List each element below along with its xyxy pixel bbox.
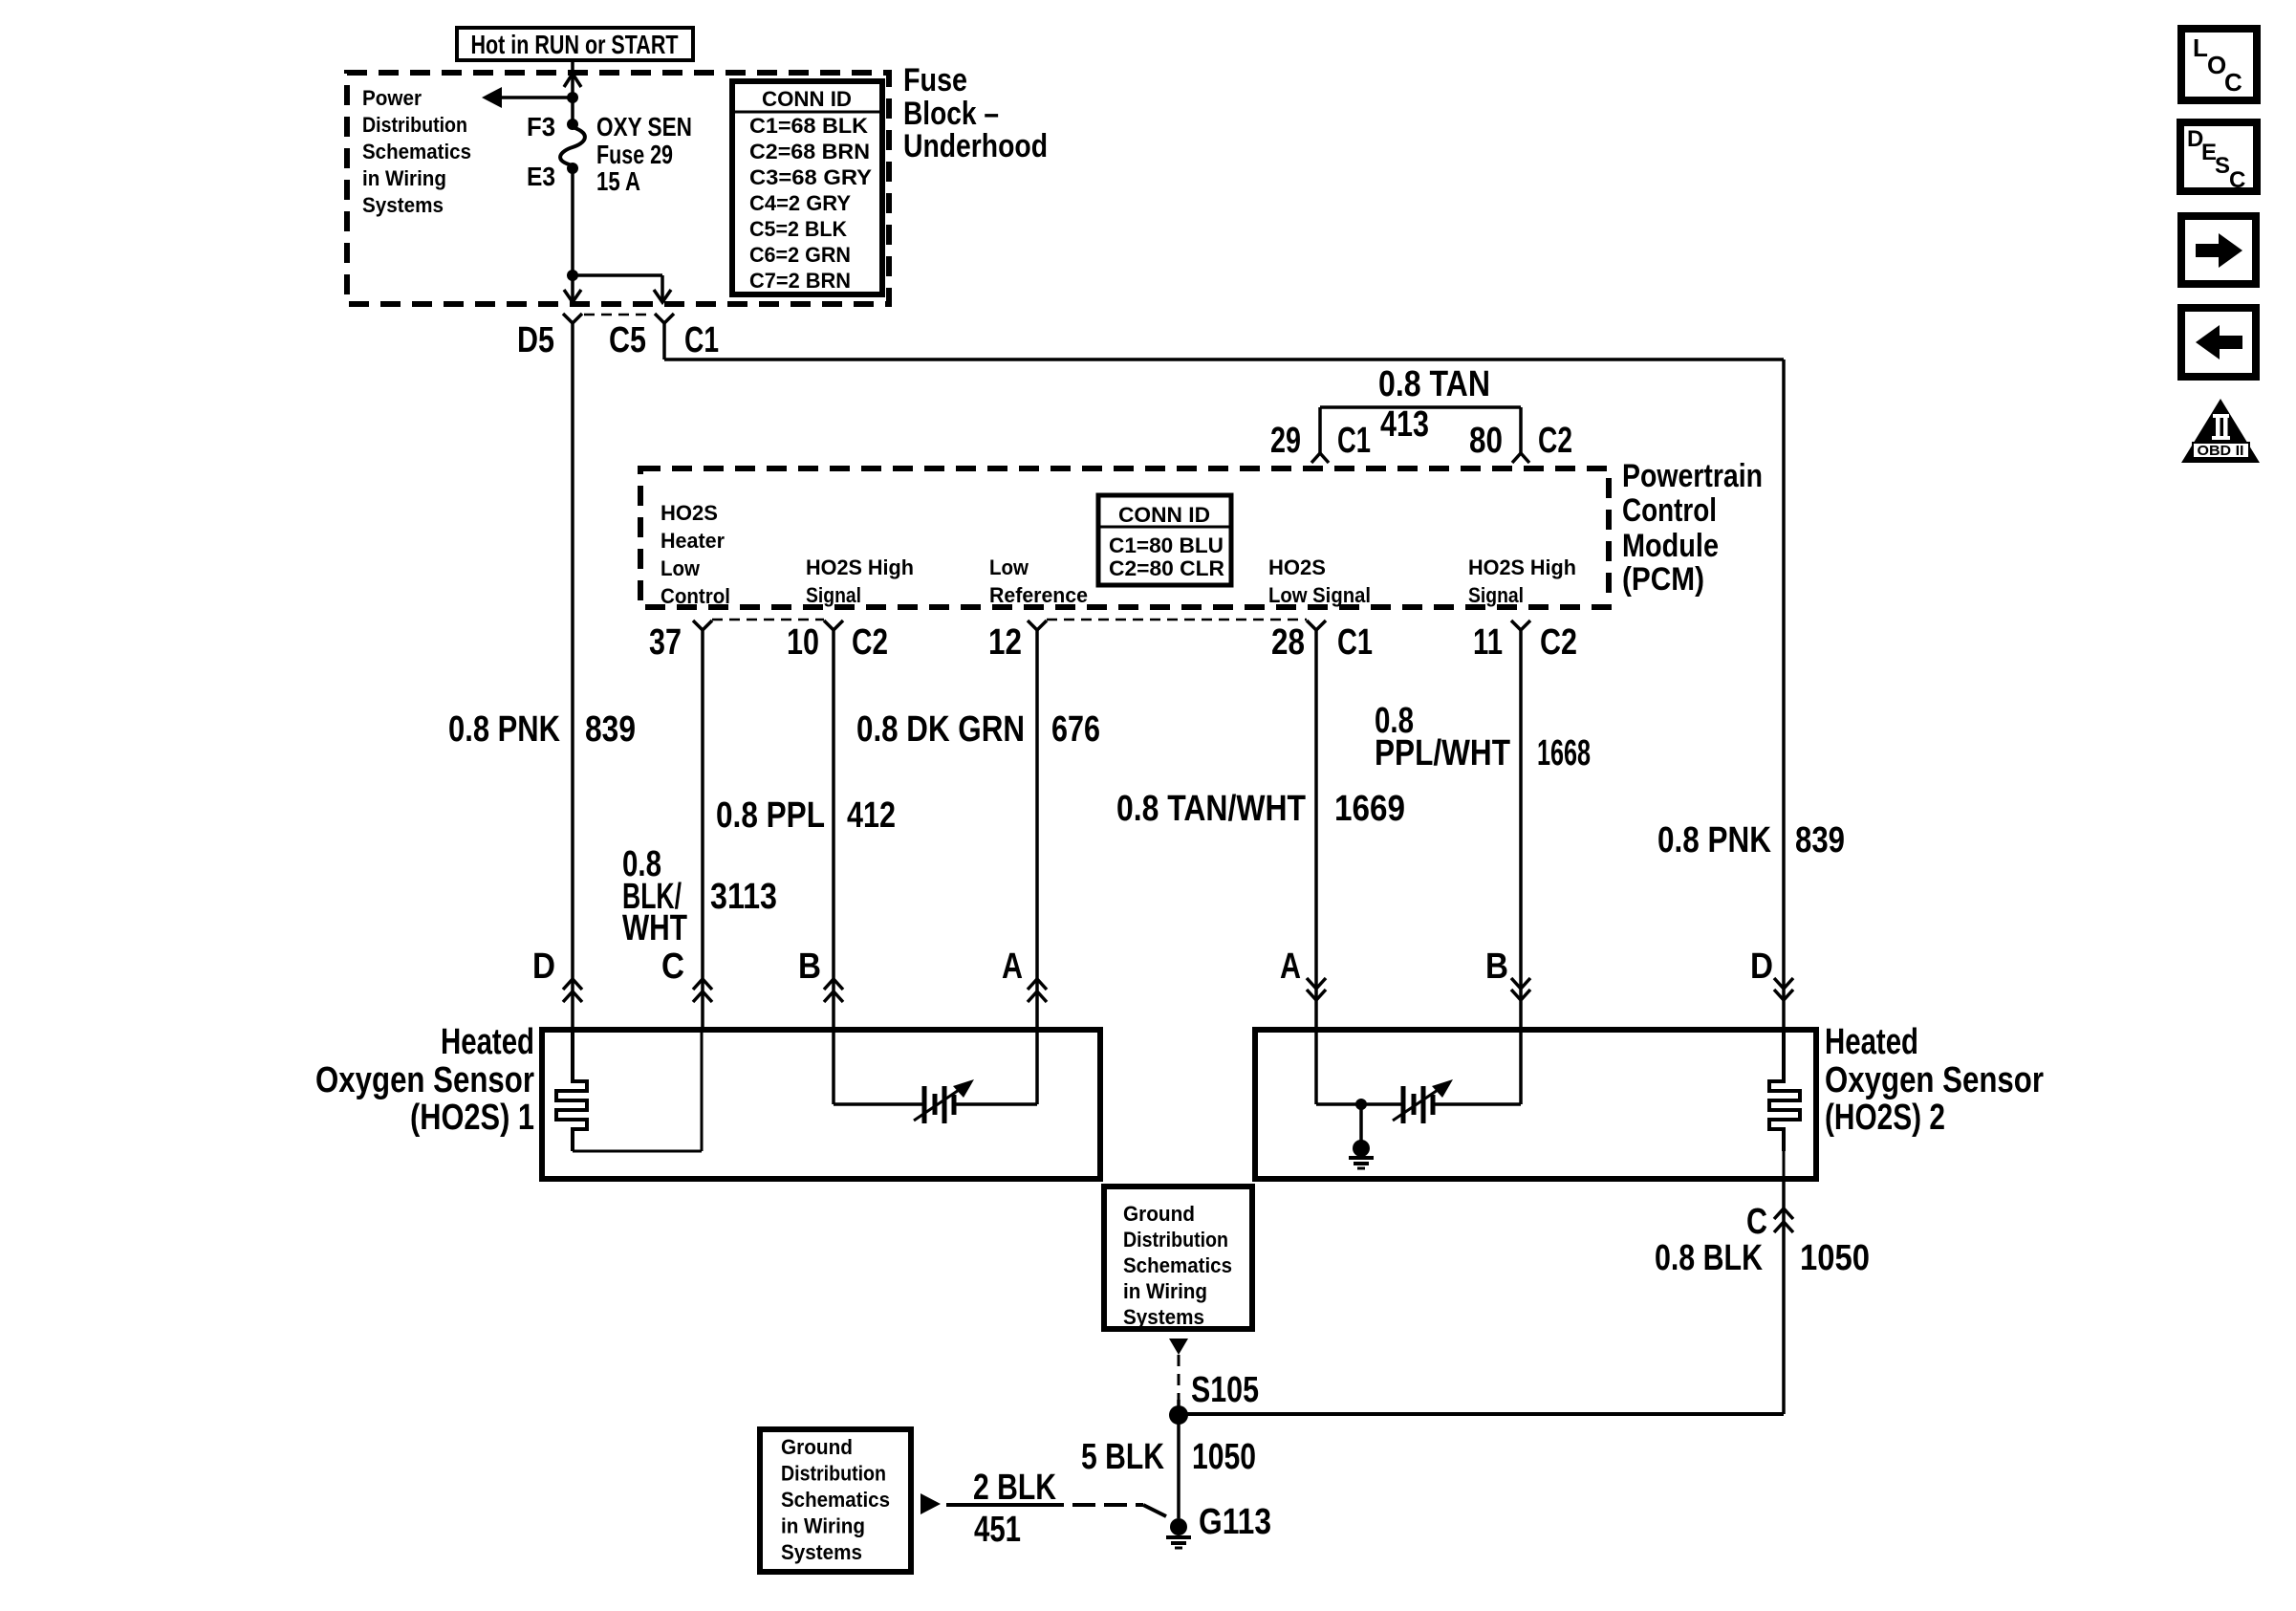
svg-text:839: 839 bbox=[1795, 820, 1845, 860]
svg-text:Reference: Reference bbox=[989, 583, 1088, 607]
svg-text:Distribution: Distribution bbox=[781, 1462, 886, 1486]
svg-text:3113: 3113 bbox=[710, 877, 777, 917]
svg-text:0.8 PNK: 0.8 PNK bbox=[1657, 820, 1771, 860]
svg-text:A: A bbox=[1002, 947, 1023, 987]
svg-text:C1=68 BLK: C1=68 BLK bbox=[749, 114, 868, 138]
svg-text:Schematics: Schematics bbox=[781, 1488, 890, 1512]
svg-text:C3=68 GRY: C3=68 GRY bbox=[749, 165, 872, 189]
svg-text:WHT: WHT bbox=[622, 908, 687, 948]
svg-text:Systems: Systems bbox=[1123, 1305, 1204, 1329]
svg-text:Control: Control bbox=[661, 584, 730, 608]
svg-text:Ground: Ground bbox=[1123, 1202, 1195, 1226]
svg-text:in Wiring: in Wiring bbox=[362, 166, 446, 190]
svg-text:Module: Module bbox=[1622, 528, 1719, 564]
svg-text:Hot in RUN or START: Hot in RUN or START bbox=[471, 30, 679, 59]
svg-text:0.8 TAN/WHT: 0.8 TAN/WHT bbox=[1116, 789, 1306, 829]
svg-text:HO2S: HO2S bbox=[1268, 555, 1326, 579]
svg-text:1668: 1668 bbox=[1537, 733, 1591, 773]
svg-text:0.8 DK GRN: 0.8 DK GRN bbox=[856, 709, 1025, 750]
svg-text:451: 451 bbox=[974, 1510, 1021, 1550]
svg-text:S105: S105 bbox=[1191, 1370, 1259, 1410]
svg-text:12: 12 bbox=[988, 622, 1022, 663]
svg-text:0.8 BLK: 0.8 BLK bbox=[1655, 1238, 1763, 1278]
svg-text:11: 11 bbox=[1473, 622, 1503, 663]
svg-text:412: 412 bbox=[847, 795, 896, 836]
svg-text:Power: Power bbox=[362, 86, 422, 110]
svg-text:D: D bbox=[532, 947, 555, 987]
svg-text:80: 80 bbox=[1469, 421, 1503, 461]
svg-text:C1: C1 bbox=[1337, 421, 1371, 461]
svg-text:B: B bbox=[798, 947, 821, 987]
svg-text:676: 676 bbox=[1051, 709, 1100, 750]
svg-text:C6=2 GRN: C6=2 GRN bbox=[749, 243, 851, 267]
svg-text:Fuse 29: Fuse 29 bbox=[596, 140, 673, 169]
svg-text:Schematics: Schematics bbox=[1123, 1253, 1232, 1277]
svg-text:Oxygen Sensor: Oxygen Sensor bbox=[1825, 1060, 2044, 1100]
svg-text:C1: C1 bbox=[684, 320, 719, 360]
svg-text:C1=80 BLU: C1=80 BLU bbox=[1109, 533, 1224, 557]
svg-text:37: 37 bbox=[649, 622, 682, 663]
svg-text:Distribution: Distribution bbox=[362, 113, 467, 137]
svg-text:C: C bbox=[1746, 1202, 1767, 1242]
svg-text:S: S bbox=[2215, 153, 2230, 179]
svg-text:C7=2 BRN: C7=2 BRN bbox=[749, 269, 851, 293]
svg-text:Systems: Systems bbox=[781, 1540, 862, 1564]
svg-text:28: 28 bbox=[1271, 622, 1305, 663]
svg-text:Low Signal: Low Signal bbox=[1268, 583, 1371, 607]
svg-text:Oxygen Sensor: Oxygen Sensor bbox=[315, 1060, 534, 1100]
svg-text:OXY SEN: OXY SEN bbox=[596, 112, 692, 142]
svg-text:C2: C2 bbox=[1538, 421, 1572, 461]
svg-text:C: C bbox=[661, 947, 684, 987]
svg-text:Block –: Block – bbox=[903, 96, 999, 132]
svg-text:Systems: Systems bbox=[362, 193, 444, 217]
svg-text:Ground: Ground bbox=[781, 1435, 853, 1459]
svg-text:C: C bbox=[2229, 167, 2245, 193]
svg-text:Low: Low bbox=[661, 556, 701, 580]
svg-text:0.8 TAN: 0.8 TAN bbox=[1378, 364, 1490, 404]
svg-text:413: 413 bbox=[1380, 404, 1429, 445]
svg-text:HO2S: HO2S bbox=[661, 501, 718, 525]
svg-text:15 A: 15 A bbox=[596, 166, 640, 196]
svg-text:C5=2 BLK: C5=2 BLK bbox=[749, 217, 847, 241]
svg-text:C2: C2 bbox=[852, 622, 888, 663]
svg-text:0.8 PNK: 0.8 PNK bbox=[448, 709, 560, 750]
svg-text:A: A bbox=[1280, 947, 1301, 987]
svg-text:Control: Control bbox=[1622, 492, 1717, 529]
svg-text:L: L bbox=[2193, 33, 2208, 62]
svg-text:E3: E3 bbox=[527, 162, 555, 191]
svg-text:(PCM): (PCM) bbox=[1622, 561, 1704, 598]
svg-text:C5: C5 bbox=[609, 320, 646, 360]
svg-text:HO2S High: HO2S High bbox=[1468, 555, 1576, 579]
svg-text:C1: C1 bbox=[1337, 622, 1373, 663]
svg-text:Heated: Heated bbox=[441, 1022, 534, 1062]
svg-text:C2=80 CLR: C2=80 CLR bbox=[1109, 556, 1224, 580]
svg-text:(HO2S) 1: (HO2S) 1 bbox=[410, 1098, 534, 1138]
svg-text:PPL/WHT: PPL/WHT bbox=[1375, 733, 1510, 773]
svg-text:Signal: Signal bbox=[806, 583, 861, 607]
svg-text:G113: G113 bbox=[1199, 1502, 1271, 1542]
svg-text:in Wiring: in Wiring bbox=[781, 1514, 865, 1538]
svg-text:D: D bbox=[1750, 947, 1773, 987]
svg-text:0.8 PPL: 0.8 PPL bbox=[716, 795, 825, 836]
svg-text:CONN ID: CONN ID bbox=[1118, 503, 1210, 527]
svg-text:in Wiring: in Wiring bbox=[1123, 1279, 1207, 1303]
svg-text:C4=2 GRY: C4=2 GRY bbox=[749, 191, 851, 215]
svg-text:C2: C2 bbox=[1540, 622, 1577, 663]
svg-text:Low: Low bbox=[989, 555, 1029, 579]
svg-text:Heater: Heater bbox=[661, 529, 725, 553]
svg-text:1669: 1669 bbox=[1334, 789, 1405, 829]
svg-text:29: 29 bbox=[1270, 421, 1301, 461]
svg-text:CONN ID: CONN ID bbox=[762, 87, 852, 111]
svg-text:1050: 1050 bbox=[1192, 1437, 1256, 1477]
svg-text:C2=68 BRN: C2=68 BRN bbox=[749, 140, 870, 163]
svg-text:839: 839 bbox=[585, 709, 636, 750]
svg-text:Distribution: Distribution bbox=[1123, 1228, 1228, 1252]
svg-text:Heated: Heated bbox=[1825, 1022, 1918, 1062]
svg-text:2 BLK: 2 BLK bbox=[973, 1468, 1056, 1508]
svg-text:1050: 1050 bbox=[1800, 1238, 1870, 1278]
svg-text:D5: D5 bbox=[517, 320, 554, 360]
svg-text:5 BLK: 5 BLK bbox=[1081, 1437, 1164, 1477]
svg-text:F3: F3 bbox=[527, 112, 555, 142]
svg-text:Fuse: Fuse bbox=[903, 62, 967, 98]
svg-text:B: B bbox=[1485, 947, 1508, 987]
svg-text:Powertrain: Powertrain bbox=[1622, 458, 1763, 494]
svg-text:Signal: Signal bbox=[1468, 583, 1524, 607]
svg-text:C: C bbox=[2224, 68, 2242, 97]
svg-text:10: 10 bbox=[787, 622, 819, 663]
svg-text:OBD II: OBD II bbox=[2198, 443, 2244, 459]
svg-text:Underhood: Underhood bbox=[903, 128, 1048, 164]
svg-text:Schematics: Schematics bbox=[362, 140, 471, 163]
svg-text:(HO2S) 2: (HO2S) 2 bbox=[1825, 1098, 1945, 1138]
svg-text:HO2S High: HO2S High bbox=[806, 555, 914, 579]
